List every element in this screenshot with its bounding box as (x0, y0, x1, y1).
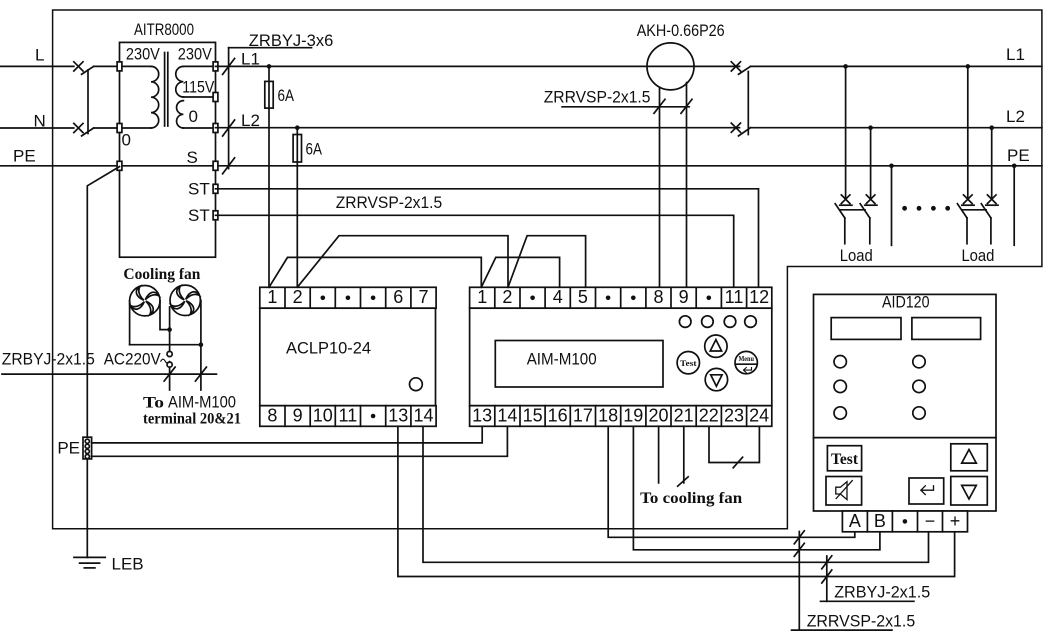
breaker load2 pole1 blade (957, 204, 967, 218)
breaker load2 pole2 contact (986, 204, 998, 206)
svg-text:18: 18 (598, 405, 618, 425)
leader ZRRVSP top underline (562, 106, 689, 108)
button Test AID (827, 446, 861, 471)
wire L incoming (0, 65, 74, 67)
transformer core (164, 53, 166, 127)
enclosure border (IT-system panel outline) (53, 10, 1042, 529)
fuse FU1 6A (265, 81, 273, 108)
terminal strip AIM bottom 13-24 (470, 406, 772, 427)
wire net AIM2 to AIM5 (508, 236, 586, 288)
up arrow glyph (710, 340, 721, 351)
svg-text:0: 0 (122, 131, 131, 150)
svg-text:7: 7 (418, 287, 428, 307)
slash on wire minus (822, 556, 832, 569)
svg-text:230V: 230V (126, 45, 161, 64)
svg-text:PE: PE (13, 147, 36, 166)
PE busbar hole 4 (85, 454, 89, 458)
svg-text:2: 2 (293, 287, 303, 307)
down triangle AID (962, 485, 977, 499)
terminal strip AIM top 1-12 (470, 287, 772, 308)
wire load1 pole1 lower (844, 218, 846, 244)
breaker load2 pole2 blade (981, 204, 991, 218)
switch blade L (82, 66, 94, 74)
button Menu AIM (735, 351, 757, 373)
terminal strip ACLP bottom 8-14 (260, 406, 436, 427)
wire ST2 to AIM terminal 11 (216, 215, 734, 287)
breaker load1 pole2 blade (860, 204, 870, 218)
terminal L primary (117, 62, 122, 71)
svg-text:9: 9 (679, 287, 689, 307)
LED indicator AIM 3 (724, 316, 736, 328)
breaker load2 pole2 X (987, 195, 996, 204)
svg-text:ZRRVSP-2x1.5: ZRRVSP-2x1.5 (544, 88, 651, 107)
menu underline and enter glyph (735, 363, 757, 365)
tick on wire 21 (678, 477, 689, 486)
contact X on L2 (731, 123, 740, 132)
slash on wire B (794, 543, 804, 556)
wire load2 L2 drop (991, 128, 993, 197)
svg-text:ST: ST (188, 206, 210, 225)
wire ST1 to AIM terminal 12 (216, 189, 759, 287)
svg-text:4: 4 (553, 287, 563, 307)
wire AIM22 to AIM24 loop (709, 426, 759, 462)
plug contact lower (167, 362, 172, 367)
slash fan wire 1 (164, 367, 175, 381)
terminal L2 secondary (213, 124, 218, 133)
wire net AIM1 to AIM4 (481, 257, 559, 287)
node fan bus right (199, 342, 204, 347)
contact X on L (74, 62, 83, 71)
button enter AID (909, 478, 944, 504)
svg-text:ST: ST (188, 180, 210, 199)
wire PE bus to ground (86, 459, 88, 558)
wire load1 L2 drop (870, 128, 872, 197)
svg-text:Test: Test (831, 451, 859, 468)
wire load1 L1 drop (845, 66, 847, 197)
svg-text:24: 24 (749, 405, 769, 425)
indicator LED ACLP (410, 378, 423, 391)
svg-text:ZRBYJ-2x1.5: ZRBYJ-2x1.5 (2, 350, 95, 369)
svg-text:S: S (187, 148, 198, 167)
module AIM-M100 body (470, 308, 772, 406)
terminal L1 secondary (213, 62, 218, 71)
wire AIM18 to AID A (608, 426, 855, 537)
fuse FU2 6A (293, 135, 301, 163)
svg-text:AIM-M100: AIM-M100 (168, 393, 236, 412)
ellipsis dots between loads (902, 206, 907, 211)
wire AIM21 to fan (683, 426, 685, 483)
svg-text:Load: Load (840, 246, 873, 265)
display window AID right (912, 318, 981, 340)
svg-text:0: 0 (189, 107, 198, 126)
breaker load1 pole1 contact (840, 204, 852, 206)
PE busbar hole 1 (85, 439, 89, 443)
wire CT to AIM terminal 9 (686, 83, 688, 288)
wire N incoming (0, 127, 74, 129)
plug tilde mark (161, 359, 170, 363)
svg-text:Test: Test (680, 359, 697, 368)
svg-text:20: 20 (648, 405, 668, 425)
enter arrow AID (921, 486, 934, 495)
svg-text:13: 13 (388, 405, 408, 425)
svg-text:PE: PE (1007, 146, 1030, 165)
svg-text:21: 21 (674, 405, 694, 425)
svg-text:AC220V: AC220V (104, 350, 162, 369)
svg-text:ACLP10-24: ACLP10-24 (286, 339, 371, 358)
terminal N primary (117, 124, 122, 133)
svg-text:L1: L1 (1006, 45, 1025, 64)
breaker load1 pole2 X (866, 195, 875, 204)
leader ZRBYJ-3x6 horizontal (229, 47, 312, 49)
svg-text:17: 17 (573, 405, 593, 425)
wire load2 PE drop (1013, 166, 1015, 246)
wire N to transformer (94, 127, 117, 129)
LED indicator AIM 2 (702, 316, 714, 328)
leader ZRBYJ left underline (2, 373, 216, 375)
button down AID (951, 477, 988, 506)
display window AID left (831, 318, 901, 340)
node fuse1 tap (267, 64, 272, 69)
svg-text:11: 11 (725, 287, 744, 307)
wire L2 right section (751, 127, 1042, 129)
divider line AID panel (814, 437, 997, 439)
svg-text:PE: PE (57, 439, 80, 458)
breaker load1 pole1 blade (835, 204, 845, 218)
button mute AID (826, 477, 862, 506)
tick on loop 22-24 (733, 457, 742, 468)
svg-text:8: 8 (653, 287, 663, 307)
PE busbar hole 3 (85, 449, 89, 453)
leader ZRRVSP bottom underline (792, 629, 892, 631)
terminal strip AID A B dot minus plus (842, 511, 967, 532)
PE busbar (83, 437, 92, 459)
svg-text:LEB: LEB (112, 555, 144, 574)
svg-text:115V: 115V (182, 78, 215, 97)
LED indicator AIM 4 (745, 316, 757, 328)
wire PE bus line (0, 165, 1042, 167)
svg-text:11: 11 (339, 405, 358, 425)
wire load1 PE drop (891, 166, 893, 246)
wire L1 left section (216, 65, 740, 67)
wire PE drop from transformer (87, 167, 119, 438)
svg-text:AID120: AID120 (882, 293, 930, 312)
LED indicator AID 4 (913, 380, 925, 392)
svg-text:To cooling fan: To cooling fan (640, 490, 742, 507)
wire fuse FU1 drop (268, 66, 270, 287)
svg-text:1: 1 (267, 287, 277, 307)
wire fan bottom bus (130, 344, 201, 346)
breaker load1 linkage (840, 209, 865, 211)
svg-text:AKH-0.66P26: AKH-0.66P26 (637, 21, 725, 40)
svg-text:6A: 6A (278, 86, 295, 105)
wire L2 left section (216, 127, 740, 129)
wire primary top (120, 65, 152, 67)
node load2 L1 tap (966, 64, 971, 69)
wire secondary top (183, 65, 215, 67)
wire CT to AIM terminal 8 (659, 87, 661, 287)
primary winding coil (151, 66, 159, 128)
node fuse2 tap (295, 125, 300, 130)
module AID120 box (814, 294, 997, 511)
svg-text:6: 6 (393, 287, 403, 307)
cooling fan M1 circle (130, 286, 160, 316)
terminal ST upper (213, 184, 218, 193)
wire primary bottom (120, 127, 152, 129)
button down AIM (705, 368, 727, 390)
down arrow glyph (711, 375, 722, 386)
switch blade L2 (739, 128, 751, 136)
svg-text:To: To (143, 395, 164, 412)
svg-text:23: 23 (724, 405, 744, 425)
node load1 PE tap (889, 164, 894, 169)
svg-text:Load: Load (961, 246, 994, 265)
breaker load2 pole1 contact (962, 204, 974, 206)
wire PE bus to AIM14 (92, 426, 508, 456)
node load1 L2 tap (868, 125, 873, 130)
svg-text:14: 14 (497, 405, 517, 425)
leader ZRBYJ-3x6 vertical (228, 48, 230, 169)
svg-text:14: 14 (413, 405, 433, 425)
up triangle AID (962, 450, 977, 464)
wire AIM20 to fan (658, 426, 660, 483)
svg-text:L: L (35, 46, 44, 65)
transformer T1 box (120, 42, 216, 257)
svg-text:−: − (925, 511, 936, 531)
breaker load2 linkage (963, 209, 987, 211)
wire ACLP14 to AID minus (423, 426, 929, 562)
svg-text:12: 12 (749, 287, 769, 307)
slash CT wire 2 (681, 99, 692, 113)
svg-text:9: 9 (293, 405, 303, 425)
slash on wire A (794, 531, 804, 544)
wire PE bus to AIM13 (92, 426, 483, 443)
leader ZRBYJ bottom underline (821, 600, 914, 602)
PE busbar hole 2 (85, 444, 89, 448)
wire fan1 right link (160, 301, 170, 330)
svg-text:ZRBYJ-2x1.5: ZRBYJ-2x1.5 (834, 583, 930, 602)
svg-text:terminal 20&21: terminal 20&21 (143, 411, 241, 428)
svg-text:AIM-M100: AIM-M100 (527, 350, 597, 369)
slash PE conductor (223, 158, 235, 174)
wire load2 pole1 lower (966, 218, 968, 244)
wire L to transformer (94, 65, 117, 67)
svg-text:10: 10 (313, 405, 333, 425)
switch blade L1 (739, 66, 751, 74)
cooling fan M2 blades (186, 292, 200, 299)
wire net ACLP1 to AIM1 (269, 257, 481, 287)
svg-text:19: 19 (623, 405, 643, 425)
wire AIM19 to AID B (633, 426, 880, 550)
contact X on N (74, 123, 83, 132)
leader ZRRVSP bottom vertical (798, 532, 800, 631)
svg-text:2: 2 (502, 287, 512, 307)
wire net ACLP2 to AIM2 (297, 236, 508, 288)
cooling fan M2 circle (170, 285, 200, 315)
LED indicator AID 3 (834, 380, 846, 392)
LED indicator AIM 1 (679, 316, 691, 328)
switch linkage QS (87, 70, 89, 134)
wire fan supply mid upper (169, 307, 171, 351)
node load1 L1 tap (843, 64, 848, 69)
leader ZRBYJ bottom vertical (826, 556, 828, 601)
breaker load2 pole1 X (964, 195, 973, 204)
wire load2 pole2 lower (990, 218, 992, 244)
wire load1 pole2 lower (869, 218, 871, 244)
svg-text:B: B (874, 511, 886, 531)
button Test AIM (677, 352, 699, 374)
svg-text:230V: 230V (178, 45, 213, 64)
svg-text:AITR8000: AITR8000 (134, 20, 194, 39)
LED indicator AID 1 (834, 356, 846, 368)
svg-text:1: 1 (477, 287, 487, 307)
svg-text:L2: L2 (1006, 107, 1025, 126)
button up AID (951, 444, 988, 471)
wire fan supply mid lower (169, 367, 171, 390)
secondary winding upper coil (176, 66, 184, 97)
wire load2 L1 drop (967, 66, 969, 197)
wire secondary bottom (183, 127, 215, 129)
node load2 PE tap (1012, 164, 1017, 169)
current transformer TA (647, 43, 694, 90)
plug contact upper (167, 351, 172, 356)
slash on wire plus (822, 570, 832, 583)
switch linkage right (747, 72, 749, 135)
secondary winding lower coil (177, 101, 184, 128)
terminal 115V (213, 93, 218, 102)
node load2 L2 tap (989, 125, 994, 130)
wire fuse FU2 drop (296, 128, 298, 288)
button up AIM (705, 335, 727, 357)
slash fan wire 2 (195, 367, 206, 381)
wire fan1 left drop (129, 301, 131, 345)
terminal S shield (213, 161, 218, 170)
LED indicator AID 6 (913, 407, 925, 419)
svg-text:Menu: Menu (738, 354, 754, 363)
svg-text:+: + (950, 511, 961, 531)
svg-text:6A: 6A (306, 140, 323, 159)
svg-text:15: 15 (523, 405, 543, 425)
svg-text:A: A (849, 511, 861, 531)
module ACLP10-24 body (260, 308, 436, 406)
svg-text:22: 22 (699, 405, 719, 425)
cooling fan M1 blades (145, 292, 159, 299)
svg-text:13: 13 (472, 405, 492, 425)
terminal strip ACLP top 1-7 (260, 287, 436, 308)
svg-text:Cooling fan: Cooling fan (123, 266, 200, 283)
switch blade N (82, 128, 94, 136)
mute speaker icon (836, 481, 853, 500)
svg-text:ZRRVSP-2x1.5: ZRRVSP-2x1.5 (336, 193, 443, 212)
breaker load1 pole2 contact (865, 204, 877, 206)
node fan link (167, 327, 172, 332)
ground LEB symbol (74, 556, 105, 558)
slash L2 conductor (223, 120, 235, 136)
LED indicator AID 5 (834, 407, 846, 419)
slash L1 conductor (223, 58, 235, 74)
wire fan supply right (200, 300, 202, 390)
LED indicator AID 2 (913, 356, 925, 368)
LCD display AIM (495, 341, 663, 388)
wire ACLP13 to AID plus (398, 426, 955, 576)
svg-text:5: 5 (578, 287, 588, 307)
slash CT wire 1 (654, 99, 665, 113)
terminal ST lower (213, 211, 218, 220)
svg-text:ZRRVSP-2x1.5: ZRRVSP-2x1.5 (807, 612, 916, 631)
terminal PE box (117, 161, 122, 170)
contact X on L1 (731, 62, 740, 71)
wire 115V tap (183, 96, 215, 98)
wire L1 right section (751, 65, 1042, 67)
svg-text:8: 8 (267, 405, 277, 425)
svg-text:16: 16 (548, 405, 568, 425)
breaker load1 pole1 X (841, 195, 850, 204)
